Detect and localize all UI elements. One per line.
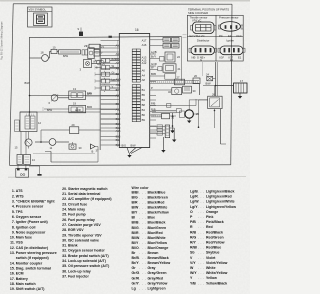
ground under 36 [172,128,176,142]
figure caption rotated [1,22,4,60]
serial data coupler 21b [156,64,181,72]
ECM pin strip A [132,49,140,82]
lockup relay 36 [165,125,174,138]
distributor rotor [25,132,32,149]
distributor coupler [189,38,217,62]
fuel injector 37 [91,144,99,162]
wire color column 2 [190,190,236,286]
right pin wire labels [151,50,157,111]
fusible link box [59,50,81,58]
right coupler grid [156,38,179,49]
fuel pump relay 26 [198,86,222,129]
oxygen sensor heater 32 [156,88,182,95]
brake pedal switch 33 row [150,125,166,128]
vss 11 [35,139,69,150]
link couplers [82,50,88,55]
pressure sensor coupler [219,15,244,38]
paper noise overlay [0,0,250,294]
coupler db3 [156,74,176,80]
diag switch terminal 15 box [16,164,29,177]
battery feed wire [203,82,234,86]
wire color column 1 [132,190,171,290]
power steering pressure switch 13 [69,87,119,100]
main switch 18 [30,50,50,61]
battery 17 [215,79,247,99]
shift switch 19 [43,101,119,113]
top bus wire [30,35,187,81]
isc solenoid valve 30b [183,86,196,93]
isc solenoid 30 [69,142,82,150]
ignition coil 8 [96,60,104,69]
mid wire rows [101,104,120,124]
ground vss branch [45,152,98,163]
sensor couplers 4,5,1,2,6 [95,57,119,94]
igniter coupler [218,38,245,62]
vertical wire 163 [161,137,165,153]
cluster wire row 111 [20,108,101,113]
wire b row [33,149,95,153]
a/c amplifier 22 [156,52,180,62]
monitor coupler 14 [15,132,36,165]
canister purge vsv 27 [175,75,185,84]
TPS coupler [190,15,217,38]
isc band and box 30 [151,113,176,119]
harness band lower [152,110,177,112]
ECM pin strip B [132,85,140,122]
main fuse 10 [50,45,59,58]
ECM ground wires [122,144,143,158]
ground right a [170,113,174,133]
harness band upper [150,81,199,84]
scan artifact line [8,176,246,179]
right vertical 220 [221,109,227,144]
legend list column 2 [62,187,111,279]
cas strips [25,114,35,130]
starter magnetic switch 20 [193,74,200,83]
lockup solenoid 34 row [150,128,166,131]
harness coupler line [99,44,100,150]
legend symbol box [28,7,53,27]
fuel pump 25 [176,100,207,121]
noise suppressor 9 [78,27,84,36]
throttle opener vsv 29 wire [41,123,101,142]
main relay 24 [206,72,216,80]
ECM left stubs [101,41,120,146]
wire row 105.5 [150,99,197,107]
ECM 16 body [117,28,149,148]
right bus wire [216,62,218,97]
terminal position table header [188,8,229,15]
cas distributor 12 outer [20,112,41,132]
ground right c [193,62,202,114]
cluster side box [15,120,20,132]
schematic border frame [10,4,233,166]
check engine light 3 [80,60,101,72]
oil pressure switch 35 row [150,132,166,135]
ECM pin labels left [116,44,121,148]
ECM pin labels right [142,39,147,123]
ground right b [187,121,191,124]
oxygen sensor 6 [49,94,69,105]
igniter 7 [94,50,103,57]
bus junction connector [109,36,112,38]
terminal position table frame [187,15,243,61]
serial data terminal 21 [86,44,104,49]
circuit fuse 23 [84,44,101,59]
wire color header [132,186,150,190]
ecm right stubs [150,40,157,138]
ground bar right of 15 [29,166,42,176]
legend list column 1 [10,189,57,291]
wire row 95.5 [30,92,120,96]
left bus wire [25,37,31,116]
